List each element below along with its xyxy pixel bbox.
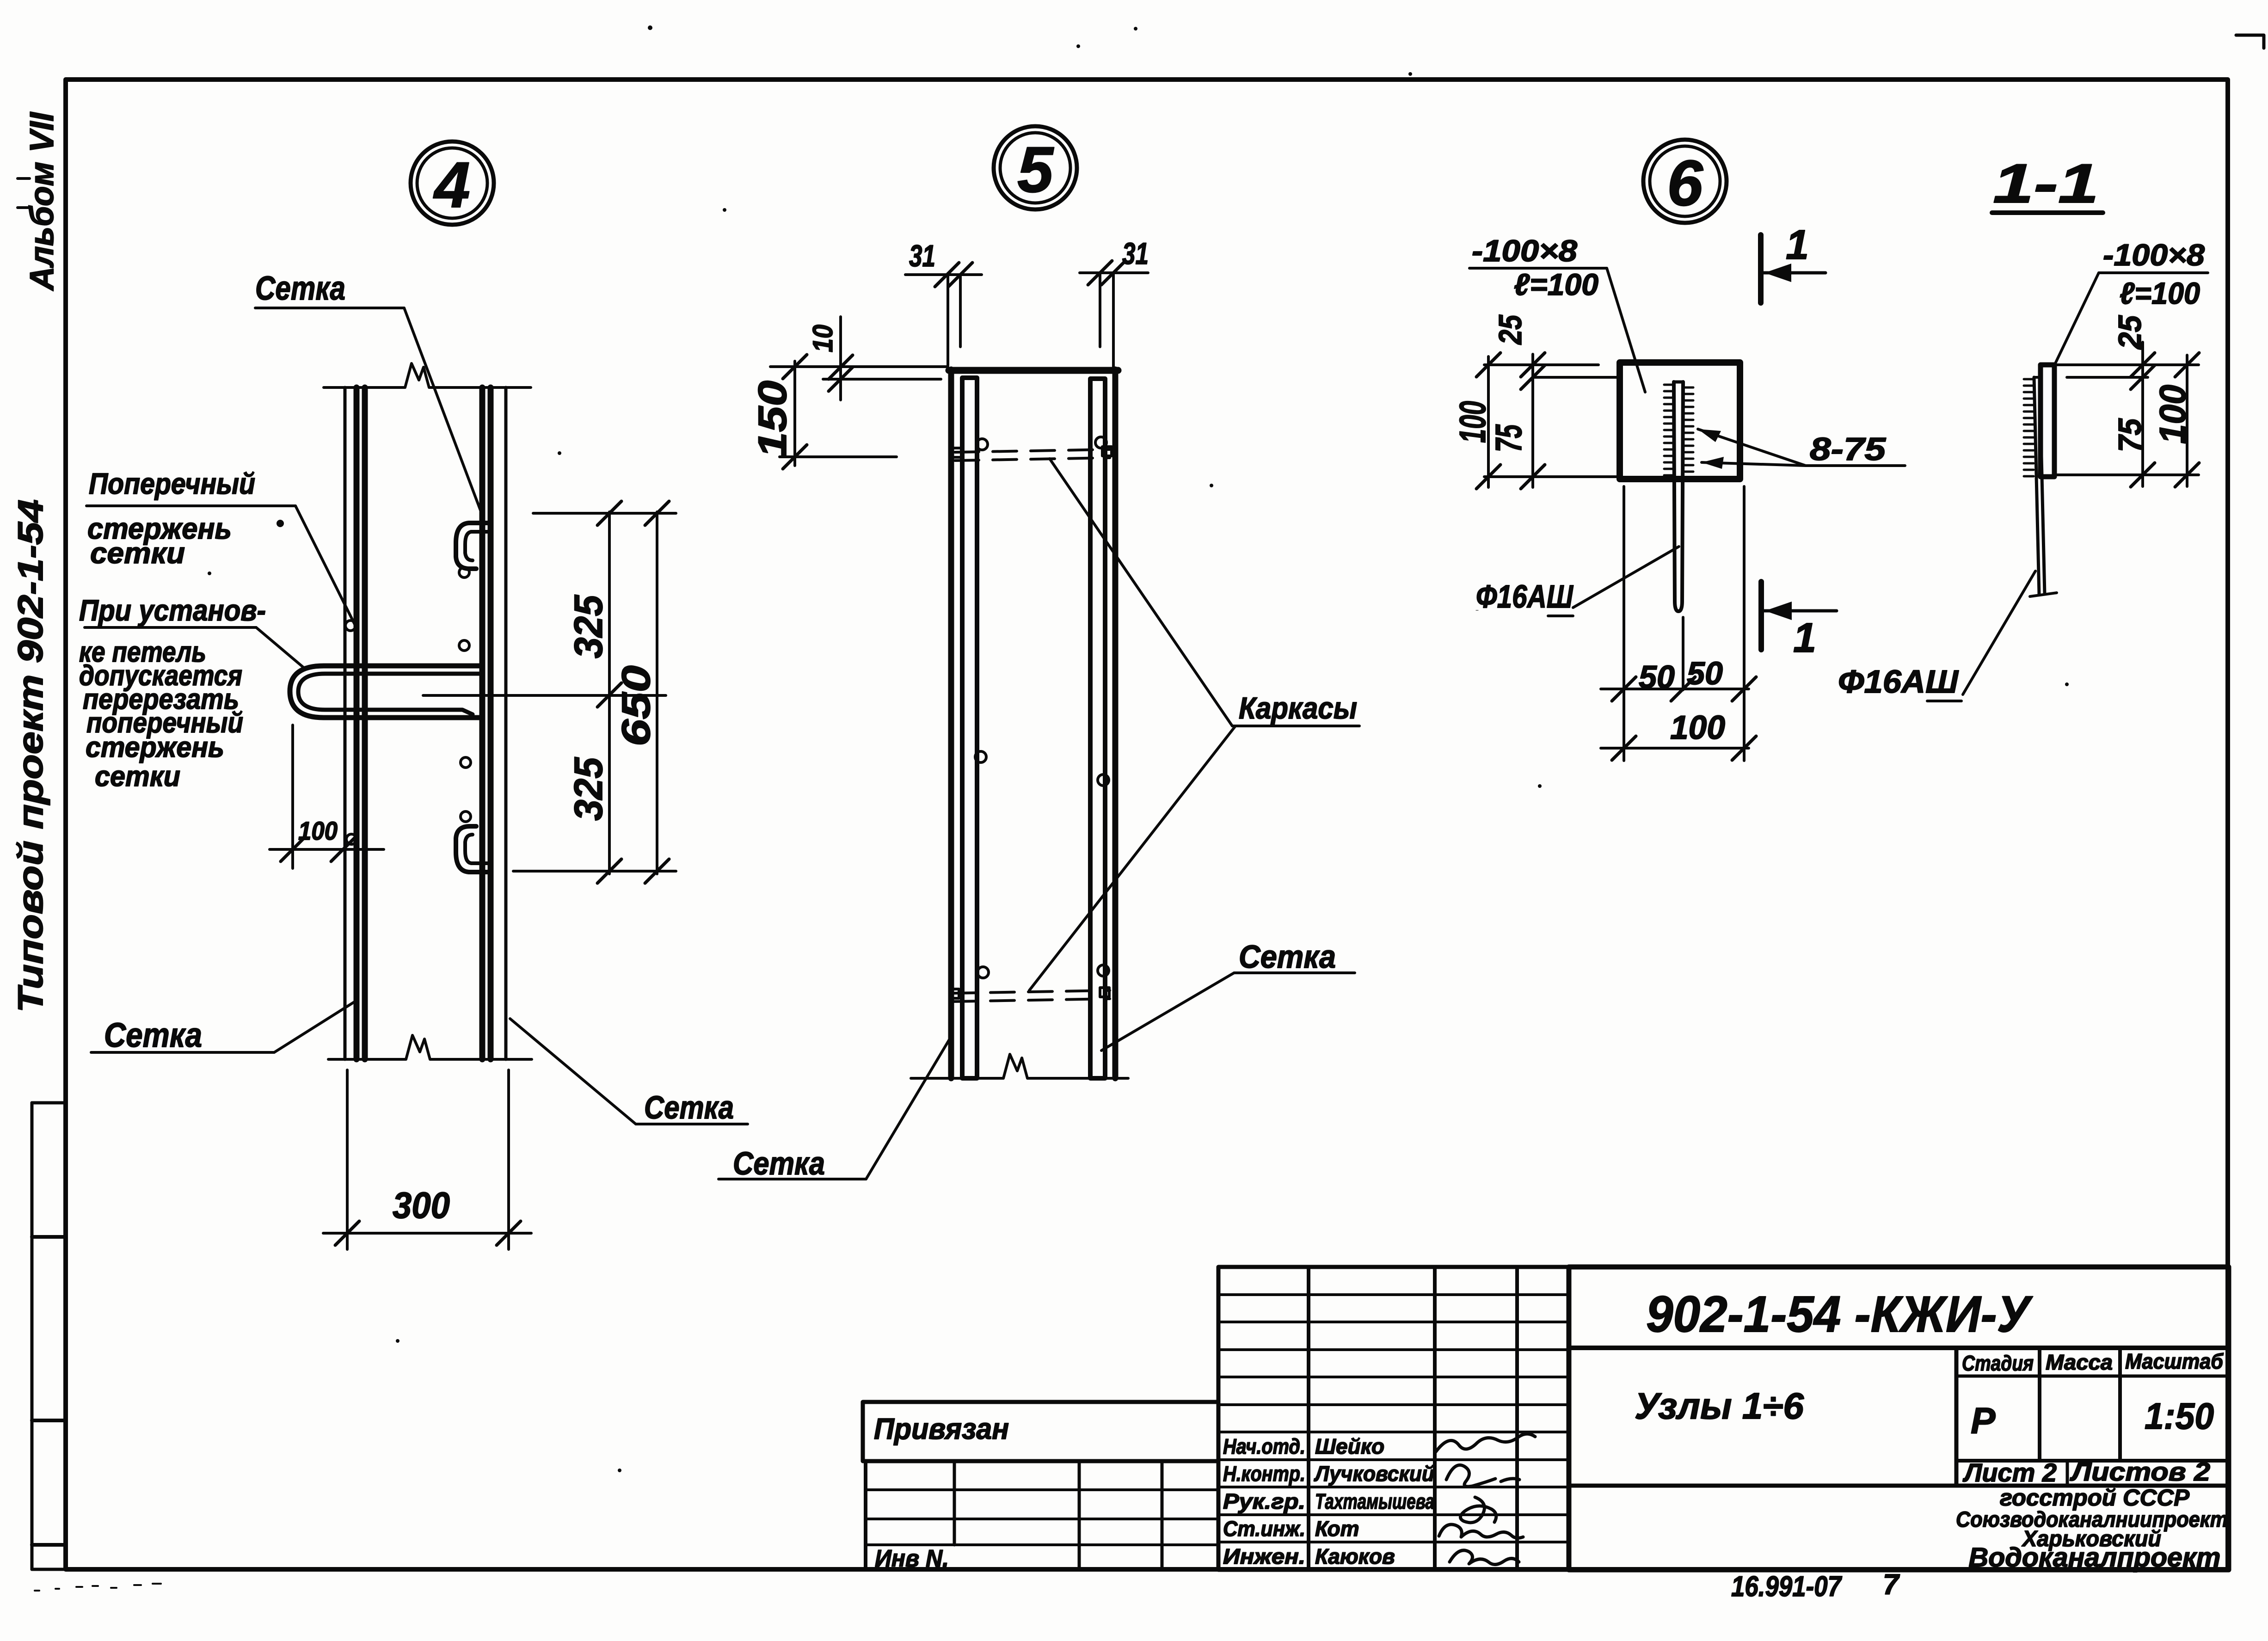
top-right corner registration mark	[2236, 35, 2264, 48]
svg-text:325: 325	[566, 757, 611, 821]
svg-text:8-75: 8-75	[1810, 431, 1886, 467]
bottom margin tick marks	[35, 1584, 161, 1591]
detail 6 anchor plate	[1620, 363, 1740, 479]
organization block text	[1956, 1485, 2228, 1573]
svg-text:стержень: стержень	[86, 731, 224, 763]
detail 5 framework bar left	[962, 378, 977, 1078]
dimension 100 (section 1-1)	[2152, 353, 2199, 487]
label При установке петель допускается перерезать поперечный стержень сетки	[79, 594, 304, 793]
svg-text:6: 6	[1667, 147, 1703, 219]
svg-text:Масштаб: Масштаб	[2125, 1349, 2224, 1373]
svg-text:Тахтамышева: Тахтамышева	[1315, 1489, 1434, 1513]
svg-text:25: 25	[1492, 314, 1528, 345]
svg-text:150: 150	[750, 381, 795, 458]
detail 5 intermediate cross-wire dots	[975, 751, 1109, 786]
svg-text:31: 31	[909, 239, 935, 273]
svg-text:Каркасы: Каркасы	[1239, 691, 1357, 725]
dimension 25/75 (section 1-1)	[2055, 315, 2199, 487]
svg-text:Нач.отд.: Нач.отд.	[1223, 1434, 1305, 1458]
Привязан box	[863, 1402, 1218, 1461]
svg-text:Лист 2: Лист 2	[1962, 1458, 2057, 1487]
svg-text:31: 31	[1122, 236, 1149, 270]
svg-text:25: 25	[2112, 315, 2148, 350]
vertical margin text: Альбом VII	[24, 111, 61, 291]
svg-text:100: 100	[2152, 385, 2193, 444]
label 8-75 weld with leaders	[1698, 429, 1905, 469]
dimension 325 lower	[566, 757, 621, 883]
svg-text:Типовой проект 902-1-54: Типовой проект 902-1-54	[11, 499, 50, 1013]
svg-text:Ф16АШ: Ф16АШ	[1476, 578, 1573, 615]
svg-text:сетки: сетки	[95, 761, 180, 793]
detail 5 balloon label	[994, 126, 1077, 209]
svg-text:Инжен.: Инжен.	[1223, 1544, 1305, 1568]
svg-text:75: 75	[2112, 418, 2148, 452]
dimension 31 left	[905, 239, 982, 365]
dimension 50 50 (detail 6)	[1601, 486, 1756, 761]
detail 4 bottom break line	[328, 1035, 532, 1059]
svg-text:Кот: Кот	[1315, 1517, 1359, 1541]
detail 4 top break line	[324, 363, 531, 387]
svg-text:325: 325	[566, 595, 611, 658]
dimension 325 upper	[566, 501, 621, 874]
section mark 1 bottom	[1761, 582, 1837, 661]
svg-text:75: 75	[1488, 424, 1529, 452]
section 1-1 plate edge view	[2041, 365, 2054, 477]
label Сетка (bottom left of detail 5) with leader	[719, 1038, 950, 1181]
detail 5 framework bar right	[1090, 379, 1105, 1078]
svg-text:1-1: 1-1	[1993, 153, 2099, 215]
svg-text:Инв N.: Инв N.	[875, 1545, 949, 1572]
left margin stamp boxes	[32, 1103, 66, 1569]
dimension 25 (detail 6)	[1484, 314, 1621, 489]
section 1-1 rebar behind plate with serration	[2024, 377, 2057, 596]
svg-text:650: 650	[614, 665, 658, 746]
detail 5 lower mesh dashed line with end plates	[950, 965, 1110, 1002]
svg-text:1: 1	[1786, 222, 1809, 268]
detail 5 column outline	[949, 369, 1118, 1078]
label Поперечный стержень сетки with leader	[86, 467, 356, 627]
svg-text:Листов 2: Листов 2	[2070, 1457, 2210, 1486]
svg-text:50: 50	[1639, 659, 1675, 695]
lower-left reference table	[866, 1461, 1218, 1572]
svg-text:При установ-: При установ-	[79, 594, 266, 627]
svg-text:Каюков: Каюков	[1315, 1544, 1395, 1568]
document number 16.991-07 and sheet 7	[1731, 1569, 1900, 1603]
svg-text:100: 100	[1452, 401, 1493, 443]
label -100x8 l=100 with leader (detail 6)	[1469, 234, 1645, 392]
detail 5 bottom break line	[911, 1054, 1128, 1078]
detail 4 balloon label	[411, 141, 494, 225]
svg-text:Масса: Масса	[2046, 1350, 2113, 1374]
svg-text:Привязан: Привязан	[874, 1412, 1009, 1445]
scan speckles	[208, 25, 2069, 1472]
svg-text:100: 100	[1670, 709, 1725, 746]
svg-text:100: 100	[298, 816, 338, 845]
svg-text:-100×8: -100×8	[2103, 238, 2205, 272]
label Сетка (bottom right of detail 4) with leader	[510, 1019, 748, 1125]
dimension 31 right	[1080, 236, 1149, 368]
svg-text:Альбом VII: Альбом VII	[24, 111, 61, 291]
main title block frame	[1569, 1267, 2229, 1570]
svg-text:-100×8: -100×8	[1472, 234, 1577, 268]
svg-text:Р: Р	[1971, 1400, 1996, 1441]
svg-text:Ст.инж.: Ст.инж.	[1223, 1517, 1305, 1541]
svg-text:Стадия: Стадия	[1962, 1351, 2034, 1375]
label Сетка (bottom left) with leader	[91, 1000, 358, 1054]
header: Стадия Масса Масштаб	[1962, 1349, 2224, 1375]
detail 4 mesh double bar left	[354, 387, 360, 1059]
detail 5 upper mesh dashed line with end plates	[952, 437, 1112, 461]
title block signature grid	[1218, 1267, 1569, 1570]
label Ф16АIII with leader (detail 6)	[1476, 547, 1679, 616]
svg-text:Рук.гр.: Рук.гр.	[1223, 1489, 1305, 1513]
vertical margin text: Типовой проект 902-1-54	[11, 499, 50, 1013]
dimension 100/75 vertical (detail 6)	[1452, 353, 1621, 489]
label -100x8 l=100 with leader (section 1-1)	[2054, 238, 2208, 365]
svg-text:ℓ=100: ℓ=100	[2120, 276, 2200, 310]
svg-text:Сетка: Сетка	[644, 1089, 734, 1125]
svg-text:7: 7	[1883, 1569, 1900, 1601]
detail 4 lifting loop (петля)	[290, 666, 481, 718]
dimension 300	[323, 1070, 531, 1249]
svg-text:Сетка: Сетка	[1239, 939, 1336, 975]
detail 4 lower hook of framework bar	[456, 826, 487, 872]
dimension 100 bottom (detail 6)	[1601, 709, 1756, 760]
svg-text:300: 300	[393, 1185, 450, 1226]
detail 4 cross-wire dots	[345, 567, 471, 844]
svg-text:Ф16АШ: Ф16АШ	[1838, 664, 1959, 700]
svg-text:10: 10	[807, 325, 838, 352]
dimension 650	[423, 501, 676, 883]
label Каркасы with leaders	[1029, 459, 1359, 990]
detail 4 mesh line right outer	[504, 387, 508, 1059]
svg-text:Водоканалпроект: Водоканалпроект	[1969, 1543, 2221, 1573]
margin dash marks	[18, 178, 30, 208]
svg-text:902-1-54 -КЖИ-У: 902-1-54 -КЖИ-У	[1646, 1286, 2033, 1343]
svg-text:сетки: сетки	[90, 536, 185, 570]
svg-text:Н.контр.: Н.контр.	[1223, 1462, 1305, 1486]
svg-text:Узлы 1÷6: Узлы 1÷6	[1635, 1385, 1804, 1426]
detail 6 anchor rebar with weld serration	[1664, 382, 1693, 611]
label Сетка (top) with leader	[255, 270, 484, 519]
dimension 100 (loop)	[270, 725, 384, 868]
Лист 2 / Листов 2	[1962, 1457, 2210, 1487]
detail 6 balloon label	[1643, 140, 1727, 223]
section mark 1 top	[1761, 222, 1825, 303]
svg-text:1: 1	[1793, 615, 1816, 661]
signatures (handwritten squiggles)	[1436, 1434, 1535, 1565]
svg-text:Сетка: Сетка	[255, 270, 345, 307]
svg-text:Лучковский: Лучковский	[1314, 1462, 1434, 1486]
svg-text:Сетка: Сетка	[733, 1145, 825, 1181]
svg-text:5: 5	[1017, 133, 1054, 206]
dimension 150	[750, 355, 948, 469]
svg-text:50: 50	[1687, 655, 1723, 691]
section 1-1 title	[1992, 153, 2103, 215]
svg-text:Сетка: Сетка	[104, 1016, 202, 1054]
svg-text:16.991-07: 16.991-07	[1731, 1571, 1842, 1603]
svg-text:1:50: 1:50	[2145, 1395, 2214, 1437]
detail 4 mesh double bar right	[479, 387, 486, 1059]
label Ф16АIII with leader (section 1-1)	[1838, 571, 2035, 701]
svg-text:Поперечный: Поперечный	[89, 467, 255, 500]
svg-text:4: 4	[433, 148, 470, 221]
svg-text:ℓ=100: ℓ=100	[1514, 267, 1598, 301]
dimension 10	[807, 317, 941, 400]
detail 4 upper hook of framework bar	[456, 523, 487, 569]
detail 4 mesh line left outer	[344, 387, 347, 1059]
signature table role labels	[1223, 1434, 1434, 1568]
label Сетка (right of detail 5) with leader	[1101, 939, 1355, 1051]
svg-text:Шейко: Шейко	[1315, 1434, 1384, 1458]
